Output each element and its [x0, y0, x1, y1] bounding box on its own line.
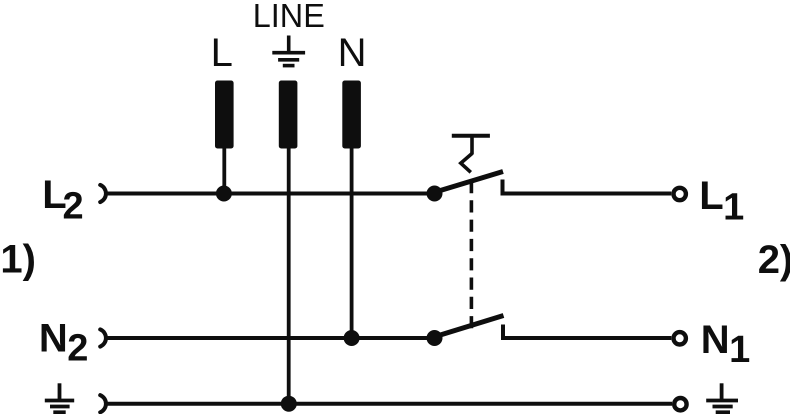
- switch blade L: [437, 172, 503, 192]
- svg-text:L: L: [699, 174, 723, 218]
- switch pivot dot L: [427, 186, 443, 202]
- svg-text:N: N: [39, 317, 68, 361]
- connector socket N2 (left arc): [100, 329, 106, 346]
- svg-text:2): 2): [758, 238, 790, 282]
- open terminal circle L1: [674, 188, 686, 200]
- junction dot PE: [281, 396, 297, 412]
- svg-text:N: N: [701, 318, 730, 362]
- terminal block L: [215, 81, 234, 149]
- wire N terminal to N2 line: [350, 148, 354, 338]
- svg-text:L: L: [211, 31, 233, 75]
- svg-text:2: 2: [67, 328, 88, 370]
- wire N2 line: [107, 336, 435, 340]
- open terminal circle PE right: [674, 398, 686, 410]
- mechanical linkage (dashed): [470, 181, 474, 333]
- connector socket PE (left arc): [100, 395, 106, 412]
- actuator stem: [470, 136, 474, 155]
- ground symbol bottom right: [706, 383, 738, 412]
- open terminal circle N1: [674, 332, 686, 344]
- connector socket L2 (left arc): [100, 185, 106, 202]
- wire L2 line: [107, 192, 435, 196]
- svg-text:N: N: [338, 31, 367, 75]
- actuator button bar: [452, 134, 490, 138]
- junction dot N2/N: [344, 330, 360, 346]
- ground symbol PE top (under LINE): [272, 36, 305, 66]
- switch contact L and wire to L1: [503, 180, 672, 194]
- terminal block LINE/PE: [279, 81, 298, 149]
- switch blade N: [437, 316, 504, 337]
- junction dot L2/L: [216, 186, 232, 202]
- svg-text:1): 1): [0, 237, 36, 281]
- actuator spring: [461, 154, 472, 173]
- switch contact N and wire to N1: [503, 325, 671, 339]
- svg-text:LINE: LINE: [253, 0, 325, 34]
- wire PE terminal down to ground line: [287, 148, 291, 404]
- svg-text:1: 1: [729, 329, 750, 371]
- switch pivot dot N: [427, 330, 443, 346]
- wire L terminal to L2 line: [222, 148, 226, 194]
- svg-text:1: 1: [723, 187, 744, 229]
- svg-text:2: 2: [63, 186, 84, 228]
- terminal block N: [342, 81, 361, 149]
- ground symbol bottom left: [45, 383, 74, 412]
- wire PE ground line: [107, 402, 672, 406]
